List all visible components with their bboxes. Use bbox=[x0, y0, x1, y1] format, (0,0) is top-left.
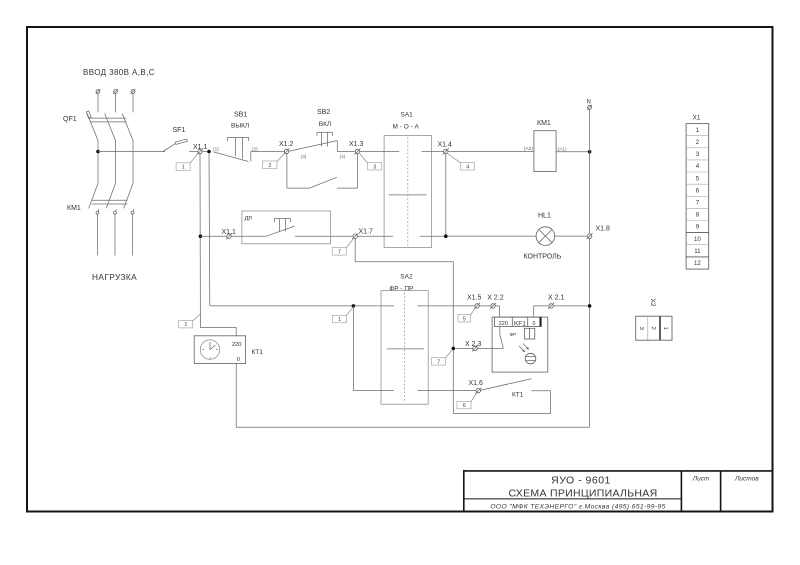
tag 7 at X1.7 bbox=[332, 239, 353, 256]
wire SB1 to X1.2 bbox=[251, 151, 284, 153]
svg-text:6: 6 bbox=[463, 403, 466, 409]
svg-text:3: 3 bbox=[638, 327, 644, 330]
contact KM1 auxiliary bbox=[287, 154, 358, 188]
svg-text:QF1: QF1 bbox=[63, 116, 77, 123]
svg-text:3: 3 bbox=[696, 151, 700, 158]
wire X1.4 drop bbox=[445, 154, 447, 237]
tag 1 at KT1 feed bbox=[179, 314, 200, 328]
svg-text:ООО "МФК ТЕХЭНЕРГО" г.Москва: ООО "МФК ТЕХЭНЕРГО" г.Москва (495) 651-9… bbox=[490, 504, 665, 511]
svg-text:КМ1: КМ1 bbox=[537, 120, 551, 127]
wire phase B drop bbox=[115, 94, 117, 113]
pushbutton ДП bbox=[266, 219, 294, 237]
svg-text:6: 6 bbox=[696, 187, 700, 194]
pin numbers X1 bbox=[694, 127, 701, 267]
wire SA2 row E stub right bbox=[418, 390, 477, 392]
wire node drop bbox=[208, 153, 211, 306]
svg-text:X1.2: X1.2 bbox=[279, 141, 294, 148]
svg-text:4: 4 bbox=[696, 163, 700, 170]
svg-text:2: 2 bbox=[268, 163, 271, 169]
svg-text:ФР: ФР bbox=[510, 332, 517, 338]
wire pole C mid bbox=[132, 141, 134, 183]
wire phase C drop bbox=[132, 94, 134, 113]
svg-text:X 2.2: X 2.2 bbox=[487, 294, 503, 301]
pushbutton SB1 bbox=[214, 137, 251, 161]
svg-text:X1.1: X1.1 bbox=[193, 144, 208, 151]
input terminal phase C bbox=[131, 89, 136, 94]
wire KT1 bottom drop bbox=[235, 363, 237, 427]
svg-text:(1): (1) bbox=[213, 146, 219, 152]
KF1 header cells bbox=[495, 317, 542, 326]
svg-text:ЯУО - 9601: ЯУО - 9601 bbox=[551, 475, 611, 487]
terminal X1.1 lower bbox=[226, 233, 232, 239]
svg-text:X1.5: X1.5 bbox=[467, 294, 482, 301]
wire KM1 coil to N bbox=[556, 151, 590, 153]
svg-text:КМ1: КМ1 bbox=[67, 205, 81, 212]
svg-text:11: 11 bbox=[694, 248, 701, 255]
svg-text:Листов: Листов bbox=[734, 476, 759, 483]
svg-text:(A1): (A1) bbox=[558, 146, 567, 152]
svg-text:КОНТРОЛЬ: КОНТРОЛЬ bbox=[524, 254, 562, 261]
svg-text:КТ1: КТ1 bbox=[512, 392, 524, 399]
svg-text:SA1: SA1 bbox=[401, 112, 414, 119]
node SA2 feed junction bbox=[352, 304, 356, 308]
wire ДП to X1.7 bbox=[295, 235, 353, 237]
svg-text:2: 2 bbox=[650, 327, 656, 330]
wire SA2 bottom branch bbox=[353, 306, 394, 391]
box ДП bbox=[242, 211, 331, 244]
terminal X1.7 bbox=[352, 233, 358, 239]
pushbutton SB2 bbox=[289, 132, 338, 151]
svg-text:1: 1 bbox=[696, 127, 700, 134]
switch SF1 bbox=[163, 139, 198, 152]
terminal X1.2 bbox=[284, 148, 290, 154]
svg-text:1: 1 bbox=[662, 327, 668, 330]
wire X2.3 row bbox=[456, 347, 473, 349]
svg-text:X1.4: X1.4 bbox=[438, 142, 453, 149]
wire X1.7 down right down bbox=[355, 238, 453, 348]
svg-text:7: 7 bbox=[338, 249, 341, 255]
tag 5 at X1.5 bbox=[458, 308, 475, 322]
svg-text:X 2.1: X 2.1 bbox=[548, 294, 564, 301]
svg-text:X2: X2 bbox=[649, 299, 656, 307]
contact KT1 timed bbox=[481, 379, 551, 391]
svg-text:X1.1: X1.1 bbox=[222, 229, 237, 236]
svg-text:SA2: SA2 bbox=[400, 273, 413, 280]
svg-text:(3): (3) bbox=[301, 154, 307, 160]
terminal block X2 bbox=[636, 316, 672, 340]
terminal X1.1 bbox=[197, 148, 203, 154]
tag 1 at SA2 feed bbox=[332, 308, 352, 323]
switch SA1 box bbox=[357, 136, 443, 248]
wire SB2 to X1.3 bbox=[337, 151, 355, 153]
svg-text:1: 1 bbox=[184, 322, 187, 328]
svg-text:Лист: Лист bbox=[692, 476, 710, 483]
svg-text:7: 7 bbox=[437, 359, 440, 365]
wire KT1 feed elbow bbox=[200, 328, 236, 336]
wire X1.4 to KM1 coil bbox=[448, 151, 534, 153]
wire SA2 row C stubs bbox=[381, 305, 475, 307]
svg-text:М - О - А: М - О - А bbox=[393, 124, 420, 131]
terminal N bbox=[587, 105, 592, 110]
wire bottom loop bbox=[236, 426, 589, 428]
tag 2 at X1.2 bbox=[263, 154, 285, 169]
svg-text:X1.7: X1.7 bbox=[359, 228, 374, 235]
breaker QF1 bbox=[86, 111, 133, 141]
switch SA2 box bbox=[381, 291, 428, 405]
svg-text:1: 1 bbox=[182, 165, 185, 171]
node X1.4 bottom junction bbox=[444, 234, 448, 238]
svg-text:X1.6: X1.6 bbox=[469, 380, 484, 387]
terminal block X1 bbox=[686, 124, 709, 270]
wire to X1.1 lower bbox=[200, 235, 226, 237]
wire pole B mid bbox=[115, 141, 117, 183]
tag 4 at X1.4 bbox=[448, 154, 475, 170]
svg-text:ФР - ПР: ФР - ПР bbox=[389, 285, 413, 292]
input terminal phase A bbox=[96, 89, 101, 94]
svg-text:(4): (4) bbox=[340, 154, 346, 160]
terminal X2.2 bbox=[490, 303, 496, 309]
svg-text:SB2: SB2 bbox=[317, 109, 330, 116]
svg-text:ВКЛ: ВКЛ bbox=[319, 121, 331, 128]
photoresistor bbox=[519, 344, 536, 364]
svg-text:НАГРУЗКА: НАГРУЗКА bbox=[92, 272, 137, 282]
timer KT1 box bbox=[194, 336, 245, 364]
svg-text:1: 1 bbox=[338, 317, 341, 323]
svg-text:СХЕМА ПРИНЦИПИАЛЬНАЯ: СХЕМА ПРИНЦИПИАЛЬНАЯ bbox=[509, 487, 658, 499]
title block bbox=[464, 470, 772, 511]
wire X1.1 lower to ДП bbox=[231, 235, 266, 237]
svg-text:X 2.3: X 2.3 bbox=[465, 341, 481, 348]
svg-text:12: 12 bbox=[694, 260, 701, 267]
terminal X1.8 bbox=[587, 233, 593, 239]
svg-text:SF1: SF1 bbox=[173, 127, 186, 134]
wire X2.2 into KF1 bbox=[495, 306, 499, 317]
wire X2.1 to N bbox=[553, 305, 589, 307]
svg-text:5: 5 bbox=[696, 175, 700, 182]
wire junction to HL1 bbox=[448, 235, 537, 237]
input terminal phase B bbox=[113, 89, 118, 94]
terminal X1.6 bbox=[475, 388, 481, 394]
tag 1 at X1.1 bbox=[176, 154, 198, 171]
node row B left junction bbox=[199, 234, 203, 238]
photorelay KF1 box bbox=[492, 317, 548, 372]
contactor KM1 main contacts bbox=[89, 183, 134, 214]
svg-text:ВВОД 380В А,В,С: ВВОД 380В А,В,С bbox=[83, 68, 155, 77]
svg-text:HL1: HL1 bbox=[538, 213, 551, 220]
svg-text:0: 0 bbox=[237, 357, 240, 363]
contact ФР bbox=[500, 327, 504, 349]
svg-text:X1.8: X1.8 bbox=[596, 226, 611, 233]
svg-text:220: 220 bbox=[499, 321, 508, 327]
wire X1.1 to node bbox=[202, 151, 209, 153]
svg-text:ВЫКЛ: ВЫКЛ bbox=[231, 123, 249, 130]
wire X2.3 to ФР contact bbox=[477, 347, 503, 349]
tag 6 at X1.6 bbox=[457, 393, 477, 409]
svg-text:X1: X1 bbox=[693, 115, 701, 122]
wire QF1 to SF1 bbox=[98, 151, 165, 153]
svg-text:КТ1: КТ1 bbox=[252, 349, 264, 356]
terminal X1.4 bbox=[443, 148, 449, 154]
svg-text:220: 220 bbox=[232, 342, 242, 348]
wire pole A mid bbox=[97, 141, 99, 183]
wire load B bbox=[114, 214, 116, 255]
wire phase A drop bbox=[97, 94, 99, 113]
svg-text:8: 8 bbox=[696, 212, 700, 219]
svg-text:10: 10 bbox=[694, 236, 701, 243]
pin numbers X2 bbox=[638, 327, 668, 330]
node A1 junction bbox=[588, 150, 592, 154]
relay element KF1 bbox=[524, 328, 534, 339]
svg-text:(A2): (A2) bbox=[524, 146, 533, 152]
svg-text:7: 7 bbox=[696, 200, 700, 207]
svg-text:5: 5 bbox=[463, 316, 466, 322]
wire load A bbox=[97, 214, 99, 255]
svg-text:N: N bbox=[587, 100, 591, 106]
svg-text:4: 4 bbox=[466, 164, 469, 170]
wire X2.3 node down loop bbox=[453, 350, 550, 413]
node QF1 pole A junction bbox=[96, 150, 100, 154]
tag 7 at X2.3 bbox=[431, 350, 451, 365]
wire KF1 0 to X2.1 bbox=[534, 306, 549, 317]
node N row C junction bbox=[588, 304, 592, 308]
svg-text:9: 9 bbox=[696, 224, 700, 231]
wire X1.5 to X2.2 bbox=[479, 305, 491, 307]
svg-text:SB1: SB1 bbox=[234, 112, 247, 119]
tag 3 at X1.3 bbox=[360, 154, 382, 170]
svg-text:2: 2 bbox=[696, 139, 700, 146]
svg-text:X1.3: X1.3 bbox=[349, 141, 364, 148]
terminal X2.3 bbox=[472, 345, 478, 351]
wire X1.1 drop bbox=[199, 154, 201, 328]
svg-text:дп: дп bbox=[245, 214, 253, 221]
node X2.3 junction bbox=[452, 347, 456, 351]
svg-text:0: 0 bbox=[532, 321, 535, 327]
terminal X1.5 bbox=[474, 303, 480, 309]
wire HL1 to X1.8 bbox=[555, 235, 588, 237]
wire N line bbox=[589, 109, 591, 427]
svg-text:3: 3 bbox=[373, 164, 376, 170]
coil KM1 bbox=[534, 131, 556, 172]
terminal X1.3 bbox=[355, 148, 361, 154]
wire feed row C bbox=[210, 305, 381, 307]
svg-text:KF1: KF1 bbox=[514, 321, 526, 328]
lamp HL1 bbox=[536, 227, 555, 246]
wire load C bbox=[132, 214, 134, 255]
terminal X2.1 bbox=[548, 303, 554, 309]
node after X1.1 bbox=[207, 150, 211, 154]
